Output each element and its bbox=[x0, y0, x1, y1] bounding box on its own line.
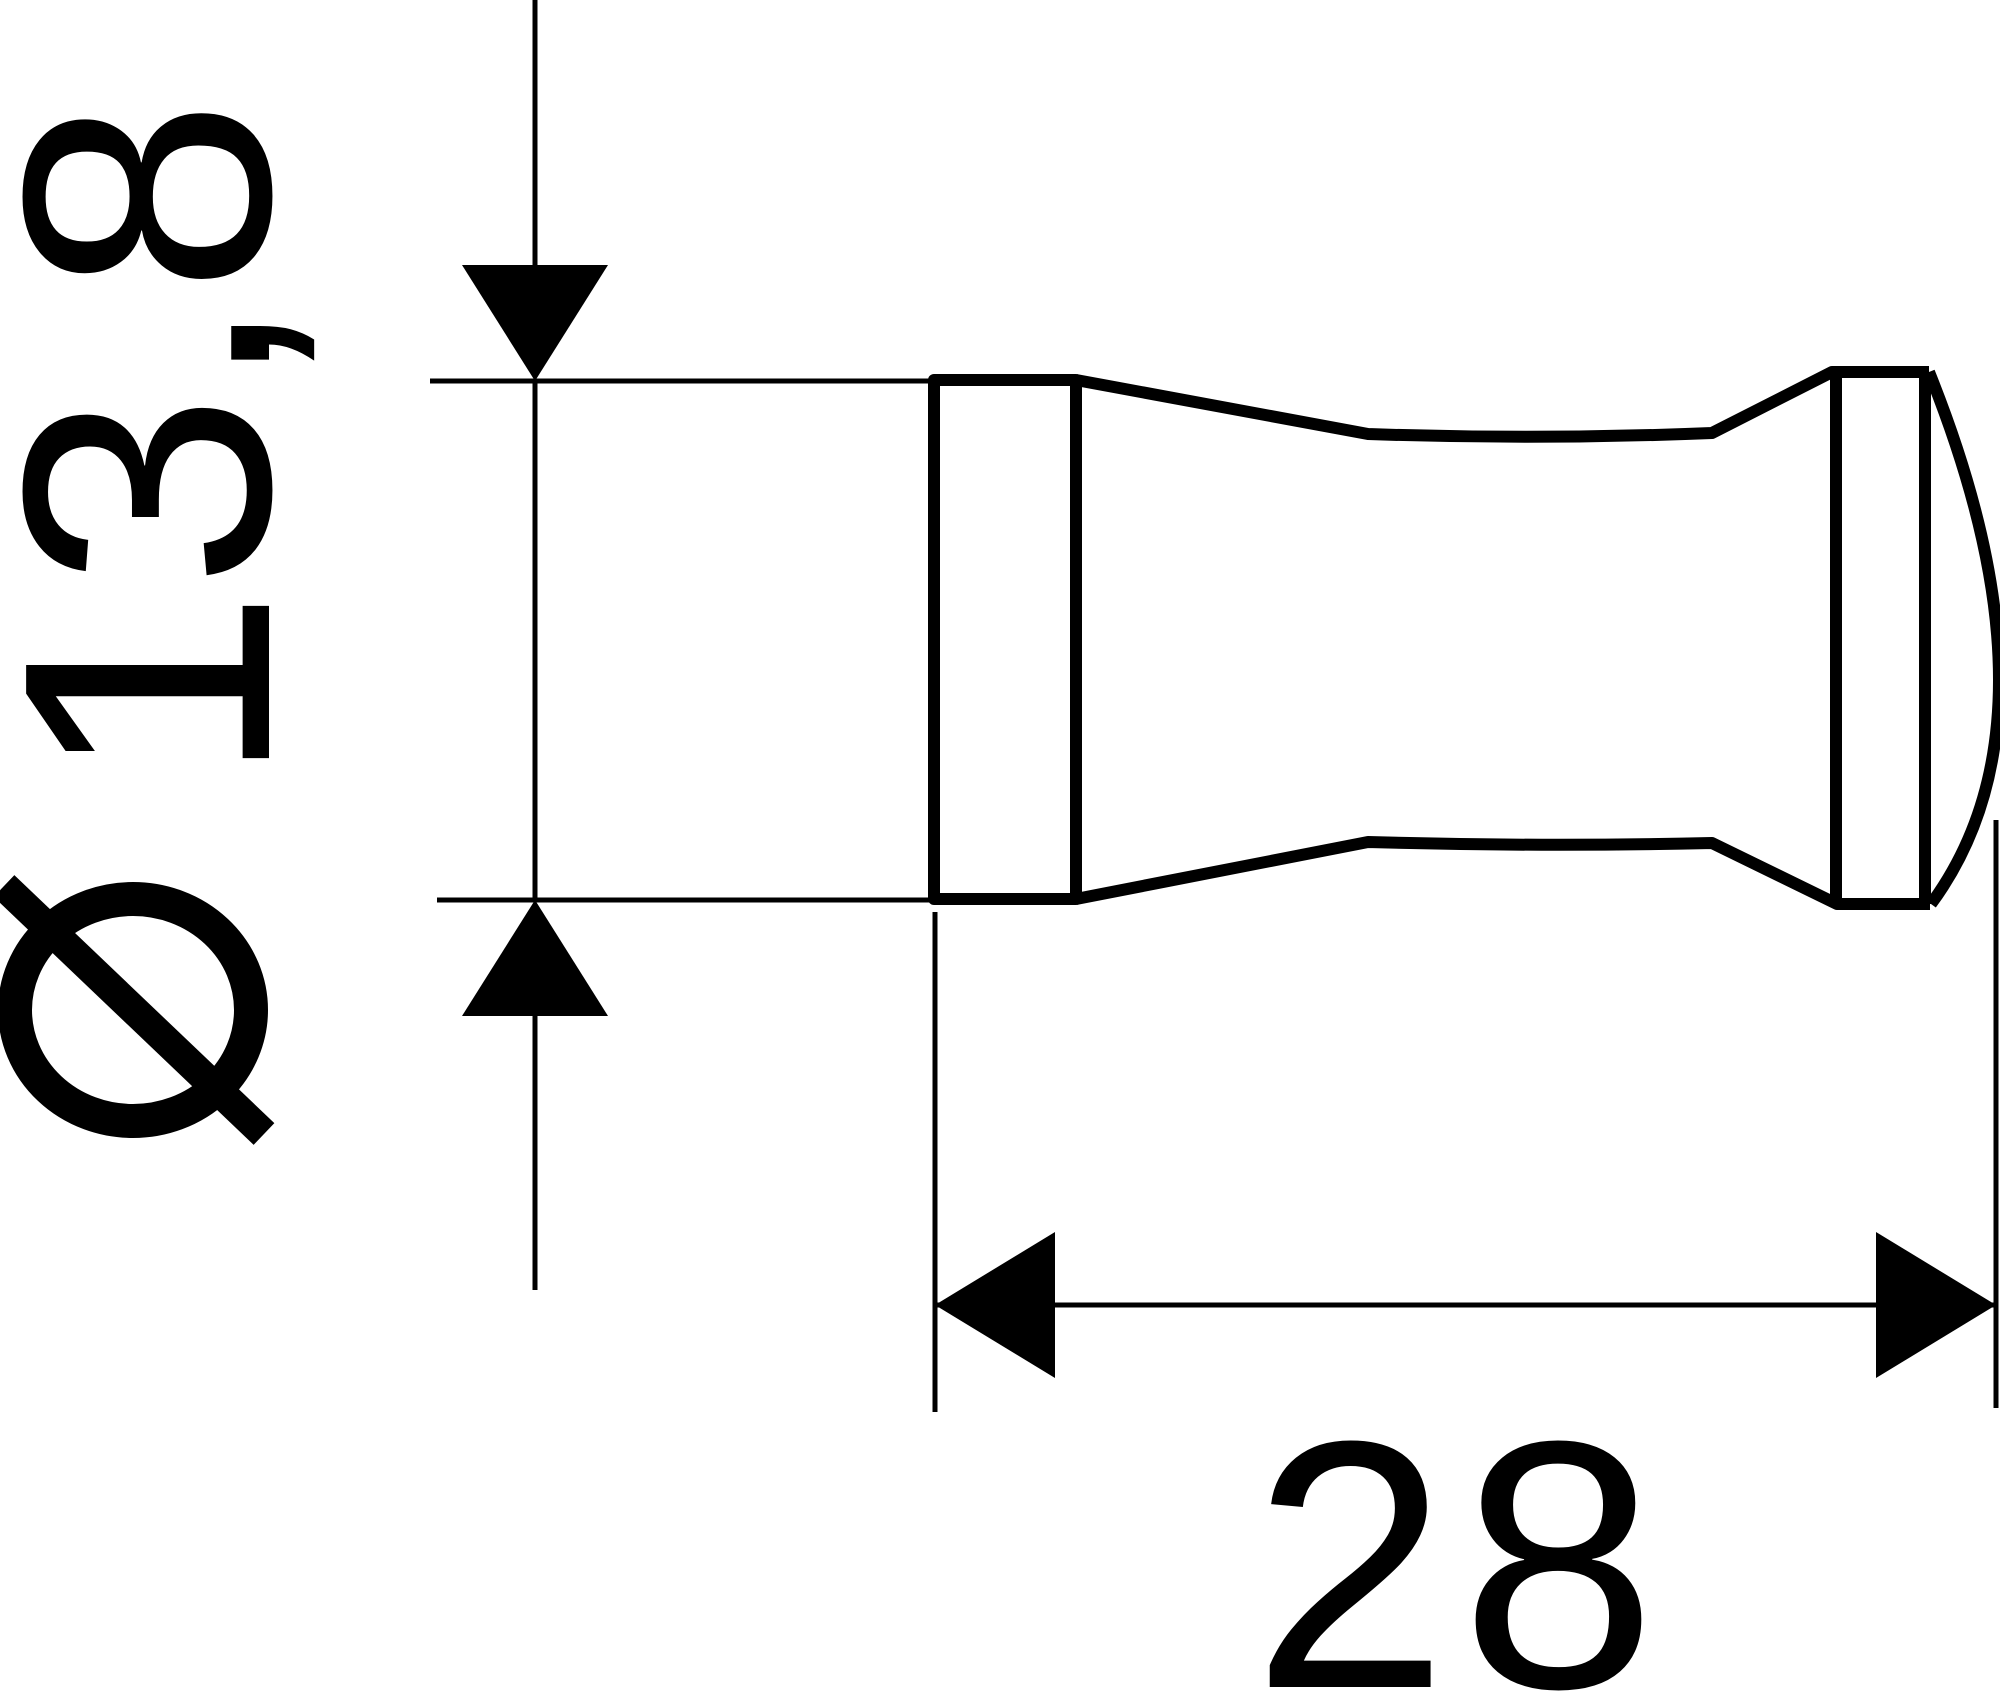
dimension line D2 (horizontal, for length 28) bbox=[935, 1303, 1996, 1308]
outline P6 (cap spherical end arc) bbox=[1929, 372, 1999, 904]
arrowhead A4 (right, at right extension line) bbox=[1876, 1232, 1996, 1378]
outline P5 (cap right vertical line) bbox=[1919, 372, 1931, 904]
outline P3 (bottom profile: taper, waist, fall to cap, cap bottom edge) bbox=[1076, 842, 1930, 904]
outline P4 (cap left vertical line) bbox=[1830, 372, 1842, 904]
label V1a (diameter symbol circle, drawn to match target glyph) bbox=[15, 899, 251, 1121]
dimension line D1 (vertical, for diameter 13,8) bbox=[533, 0, 538, 1290]
arrowhead A2 (up, at bottom extension line) bbox=[462, 900, 608, 1016]
extension line E3 (left, x=935) bbox=[933, 912, 938, 1412]
outline P2 (top profile: taper, waist, rise to cap, cap top edge) bbox=[1076, 372, 1929, 437]
extension line E1 (top, y=381) bbox=[430, 379, 934, 384]
outline P1 (flange rectangle of part) bbox=[934, 380, 1076, 899]
svg-text:28: 28 bbox=[1252, 1367, 1669, 1695]
svg-text:13,8: 13,8 bbox=[0, 98, 344, 785]
extension line E2 (bottom, y=900) bbox=[437, 898, 934, 903]
arrowhead A1 (down, at top extension line) bbox=[462, 265, 608, 381]
label V1b (diameter symbol slash) bbox=[4, 886, 264, 1134]
arrowhead A3 (left, at left extension line) bbox=[935, 1232, 1055, 1378]
extension line E4 (right, x=1996) bbox=[1994, 820, 1999, 1408]
